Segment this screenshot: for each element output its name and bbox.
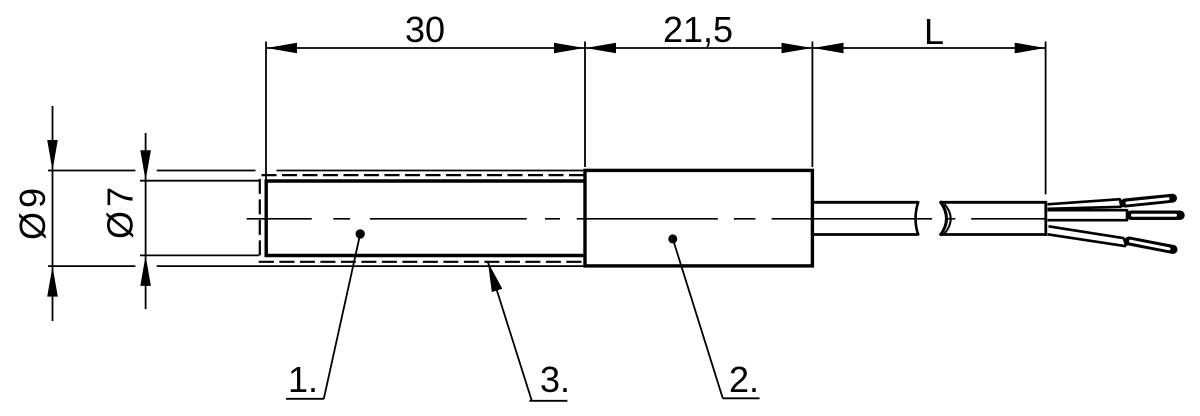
cable right piece top edge [940,201,1046,204]
bottom wire insulation cut edge [1124,238,1127,246]
middle wire insulation upper line [1048,209,1128,212]
top wire insulation lower line [1048,207,1122,209]
outer tube top edge / diameter 9 extension line segments y=170.5 [48,170,135,172]
label 2 underline [723,397,760,399]
bottom wire insulation lower line [1048,234,1126,246]
svg-text:3.: 3. [540,359,570,400]
leader 3 arrowhead [488,262,502,292]
centerline dash-dot segments [247,218,1045,220]
bottom wire insulation upper line [1049,226,1125,238]
dimension L line [813,47,1045,49]
dimension L left arrow [813,43,844,54]
svg-text:Ø9: Ø9 [12,184,53,240]
probe inner tube (part 1) thick outline [266,181,584,256]
leader 3 line [488,262,532,401]
dimension L right arrow [1015,43,1045,54]
dimension 21,5 line [586,47,813,49]
middle wire insulation lower line [1048,219,1128,222]
diameter 7 bottom arrow [140,255,151,286]
cable right end edge [1044,201,1047,236]
cable right break inner arc [945,204,951,234]
top wire bare conductor [1125,198,1173,203]
cable right piece bottom edge [940,233,1046,236]
top wire insulation upper line [1048,199,1121,204]
svg-text:Ø7: Ø7 [100,183,141,239]
leader 1 dot [356,229,365,238]
dimension 21,5 left arrow [586,43,617,54]
svg-text:2.: 2. [729,359,759,400]
svg-text:1.: 1. [288,359,318,400]
dimension 30 extension line at x=266 [265,42,267,190]
diameter 7 extension line top [140,180,259,182]
diameter 7 top arrow [140,150,151,181]
diameter 7 extension line bottom [140,254,259,256]
diameter 9 dimension line [52,106,54,321]
sleeve (part 2) rectangle [585,170,812,266]
dimension L extension line at x=1045.6 [1045,42,1047,195]
middle wire bare conductor [1131,210,1180,220]
dimension 21,5 extension line at x=585 [584,42,586,168]
dimension 30 line [267,47,585,49]
cable left piece bottom edge [814,233,919,236]
dimension 21,5 / L shared extension line at x=812.4 [811,42,813,168]
diameter 9 top arrow [47,140,58,171]
cable left piece top edge [814,201,919,204]
leader 2 dot [668,234,677,243]
sheath dashed outline (part 3) [260,175,584,262]
diameter 9 bottom arrow [47,266,58,297]
top wire insulation cut edge [1120,199,1122,208]
svg-text:30: 30 [405,9,445,50]
diameter 7 dimension line [145,133,147,309]
label 3 underline [529,400,567,402]
dimension 21,5 right arrow [782,43,813,54]
outer tube bottom edge / diameter 9 extension line segments y=266.1 [48,265,135,267]
dimension 30 right arrow [554,43,585,54]
svg-text:21,5: 21,5 [663,9,733,50]
cable left break arc [916,201,919,235]
dimension 30 left arrow [267,43,298,54]
cable right break outer arc [940,201,947,235]
leader 2 line [673,239,723,398]
label 1 underline [286,398,324,400]
leader 1 line [324,234,360,399]
middle wire insulation cut edge [1126,209,1129,221]
bottom wire bare conductor [1129,241,1173,249]
svg-text:L: L [924,11,944,52]
